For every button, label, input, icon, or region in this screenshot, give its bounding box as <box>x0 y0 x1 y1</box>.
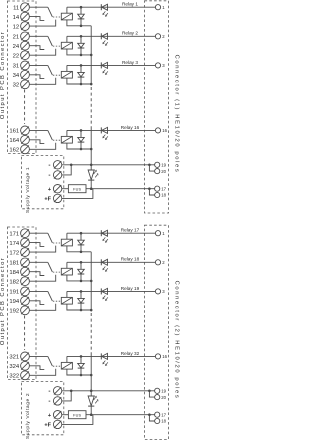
svg-text:171: 171 <box>9 231 19 237</box>
junction + bus <box>90 413 93 416</box>
svg-text:164: 164 <box>9 138 20 144</box>
LED Relay 1 <box>100 4 102 10</box>
relay coil (Relay 2) <box>61 42 72 49</box>
svg-text:Relay 1: Relay 1 <box>122 2 138 7</box>
wire 31 to contact <box>29 64 47 66</box>
wire coil top to rail <box>66 65 68 71</box>
svg-text:22: 22 <box>13 53 20 59</box>
wire 181 to contact <box>29 261 47 263</box>
contact arm Relay 3 <box>48 65 53 75</box>
rail Relay 32 <box>67 355 155 357</box>
svg-text:34: 34 <box>13 73 20 79</box>
terminal 22 (NC) <box>21 51 30 60</box>
mechanical link Relay 16 <box>53 139 61 141</box>
LED Relay 32 <box>100 353 102 359</box>
wire pins 17/18 tie <box>149 189 154 195</box>
wire coil top to rail <box>66 291 68 297</box>
svg-text:184: 184 <box>9 270 20 276</box>
junction rail/diode <box>80 6 83 9</box>
svg-text:Relay 17: Relay 17 <box>121 228 140 233</box>
wire 161 to contact <box>29 129 47 131</box>
LED Relay 16 <box>100 127 102 133</box>
supply voltage box (bank 2) <box>22 382 64 435</box>
supply voltage box (bank 1) <box>22 156 64 209</box>
rail Relay 17 <box>67 232 155 234</box>
junction - bus/LED <box>90 164 93 167</box>
LED Relay 19 <box>100 288 102 294</box>
terminal 161 (COM) <box>21 126 30 135</box>
wire 321 to contact <box>29 355 47 357</box>
pin 17 <box>155 186 160 191</box>
svg-text:11: 11 <box>13 5 19 11</box>
pin 2 connector 1 <box>155 34 160 39</box>
pin 18 <box>155 192 160 197</box>
junction diode/return <box>80 83 83 86</box>
junction pin 19 wire <box>148 390 151 393</box>
connector (2) box <box>145 225 169 439</box>
LED Relay 17 <box>100 230 102 236</box>
wire 184 to contact <box>29 272 44 276</box>
rail Relay 19 <box>67 290 155 292</box>
continuation dashes terminals <box>24 90 26 125</box>
rail Relay 2 <box>67 35 155 37</box>
mechanical link Relay 3 <box>53 74 61 76</box>
wire pins 19/20 tie <box>149 391 154 397</box>
svg-text:18: 18 <box>161 193 166 198</box>
relay coil (Relay 3) <box>61 71 72 78</box>
svg-text:Relay 18: Relay 18 <box>121 257 140 262</box>
rail Relay 16 <box>67 129 155 131</box>
terminal - (2) <box>53 397 61 405</box>
terminal 164 (NO) <box>21 135 30 144</box>
LED Relay 3 <box>100 62 102 68</box>
pin 16 connector 2 <box>155 354 160 359</box>
pin 19 <box>155 162 160 167</box>
mechanical link Relay 19 <box>53 300 61 302</box>
svg-text:20: 20 <box>161 169 166 174</box>
terminal 321 (COM) <box>21 352 30 361</box>
junction diode/return <box>80 374 83 377</box>
junction diode/return <box>80 25 83 28</box>
junction diode/return <box>80 280 83 283</box>
pin 16 connector 1 <box>155 128 160 133</box>
power LED <box>90 165 92 170</box>
wire - rail <box>62 390 155 392</box>
terminal 191 (COM) <box>21 287 30 296</box>
terminal - (2) <box>53 171 61 179</box>
output PCB connector box (bank 1) <box>8 1 37 154</box>
junction rail/diode <box>80 64 83 67</box>
wire coil top to rail <box>66 130 68 136</box>
svg-text:-: - <box>48 162 50 169</box>
svg-text:-: - <box>48 172 50 179</box>
wire 32 to contact <box>29 78 55 85</box>
relay coil (Relay 16) <box>61 136 72 143</box>
connector (1) box <box>145 1 169 213</box>
junction - tie <box>70 390 73 393</box>
svg-text:321: 321 <box>9 355 19 361</box>
pin 20 <box>155 395 160 400</box>
wire fuse to connector <box>86 188 155 190</box>
terminal 32 (NC) <box>21 80 30 89</box>
terminal 324 (NO) <box>21 361 30 370</box>
junction diode/return <box>80 309 83 312</box>
wire +F tie <box>62 415 93 425</box>
junction rail/diode <box>80 355 83 358</box>
svg-text:17: 17 <box>161 412 166 417</box>
svg-text:192: 192 <box>9 309 19 315</box>
terminal +F <box>53 194 61 202</box>
terminal +F <box>53 420 61 428</box>
wire 191 to contact <box>29 290 47 292</box>
svg-text:Relay 16: Relay 16 <box>121 125 140 130</box>
wire coil top to rail <box>66 7 68 13</box>
junction return/bus <box>90 309 93 312</box>
wire coil return <box>67 143 91 149</box>
terminal 12 (NC) <box>21 22 30 31</box>
svg-text:161: 161 <box>9 129 19 135</box>
svg-text:+F: +F <box>44 423 51 429</box>
svg-text:FUS: FUS <box>73 188 81 192</box>
wire 22 to contact <box>29 49 55 56</box>
svg-text:Relay 2: Relay 2 <box>122 31 138 36</box>
terminal 31 (COM) <box>21 61 30 70</box>
svg-text:16: 16 <box>162 128 167 133</box>
negative bus (solid upper) <box>90 252 92 312</box>
wire 174 to contact <box>29 243 44 247</box>
flyback diode Relay 1 <box>80 7 82 14</box>
contact arm Relay 18 <box>48 262 53 272</box>
junction rail/diode <box>80 35 83 38</box>
svg-text:17: 17 <box>161 186 166 191</box>
terminal 11 (COM) <box>21 3 30 12</box>
svg-text:Relay 3: Relay 3 <box>122 60 138 65</box>
wire 12 to contact <box>29 20 55 27</box>
mechanical link Relay 32 <box>53 365 61 367</box>
wire 21 to contact <box>29 35 47 37</box>
fuse FUS <box>68 185 86 193</box>
svg-text:24: 24 <box>13 44 20 50</box>
wire +F tie <box>62 189 93 199</box>
junction rail/diode <box>80 261 83 264</box>
terminal 172 (NC) <box>21 248 30 257</box>
terminal 162 (NC) <box>21 145 30 154</box>
contact arm Relay 19 <box>48 291 53 301</box>
rail Relay 1 <box>67 6 155 8</box>
junction return/bus <box>90 374 93 377</box>
relay coil (Relay 18) <box>61 268 72 275</box>
relay coil (Relay 32) <box>61 362 72 369</box>
junction return/bus <box>90 280 93 283</box>
relay coil (Relay 17) <box>61 239 72 246</box>
wire coil return <box>67 246 91 252</box>
fuse FUS <box>68 411 86 419</box>
svg-text:-: - <box>48 398 50 405</box>
contact arm Relay 16 <box>48 130 53 140</box>
junction + bus <box>90 187 93 190</box>
svg-text:Relay 19: Relay 19 <box>121 286 140 291</box>
svg-text:FUS: FUS <box>73 414 81 418</box>
terminal 181 (COM) <box>21 258 30 267</box>
wire 34 to contact <box>29 75 44 79</box>
negative bus (dashed continuation) <box>90 87 92 127</box>
mechanical link Relay 18 <box>53 271 61 273</box>
terminal 171 (COM) <box>21 229 30 238</box>
wire coil top to rail <box>66 36 68 42</box>
svg-text:Output PCB Connector: Output PCB Connector <box>0 257 6 345</box>
contact arm Relay 17 <box>48 233 53 243</box>
wire coil return <box>67 304 91 310</box>
svg-text:182: 182 <box>9 279 19 285</box>
pin 3 connector 1 <box>155 63 160 68</box>
junction rail/diode <box>80 129 83 132</box>
terminal 174 (NO) <box>21 238 30 247</box>
flyback diode Relay 32 <box>80 356 82 363</box>
flyback diode Relay 2 <box>80 36 82 43</box>
relay coil (Relay 19) <box>61 297 72 304</box>
wire + to fuse <box>62 414 68 416</box>
terminal 192 (NC) <box>21 306 30 315</box>
junction diode/return <box>80 251 83 254</box>
terminal 14 (NO) <box>21 12 30 21</box>
svg-text:20: 20 <box>161 395 166 400</box>
terminal - (1) <box>53 387 61 395</box>
wire + to fuse <box>62 188 68 190</box>
negative bus (solid lower) <box>90 353 92 391</box>
flyback diode Relay 3 <box>80 65 82 72</box>
junction pin 17 wire <box>148 187 151 190</box>
svg-text:162: 162 <box>9 148 19 154</box>
terminal 184 (NO) <box>21 267 30 276</box>
junction diode/return <box>80 54 83 57</box>
svg-text:12: 12 <box>13 24 20 30</box>
junction rail/diode <box>80 232 83 235</box>
wire pins 19/20 tie <box>149 165 154 171</box>
junction - tie <box>70 164 73 167</box>
terminal + <box>53 185 61 193</box>
terminal 194 (NO) <box>21 296 30 305</box>
terminal - (1) <box>53 161 61 169</box>
negative bus (solid lower) <box>90 127 92 165</box>
wire - rail <box>62 164 155 166</box>
junction pin 19 wire <box>148 164 151 167</box>
svg-text:172: 172 <box>9 250 19 256</box>
junction rail/diode <box>80 290 83 293</box>
junction return/bus <box>90 148 93 151</box>
wire coil top to rail <box>66 356 68 362</box>
relay coil (Relay 1) <box>61 13 72 20</box>
wire coil return <box>67 275 91 281</box>
svg-text:322: 322 <box>9 374 19 380</box>
wire 172 to contact <box>29 246 55 253</box>
wire 182 to contact <box>29 275 55 282</box>
wire coil return <box>67 78 91 84</box>
svg-text:191: 191 <box>9 290 19 296</box>
pin 1 connector 2 <box>155 231 160 236</box>
contact arm Relay 32 <box>48 356 53 366</box>
svg-text:174: 174 <box>9 241 20 247</box>
output PCB connector box (bank 2) <box>8 227 37 380</box>
svg-text:14: 14 <box>13 15 20 21</box>
svg-text:19: 19 <box>161 389 166 394</box>
pin 3 connector 2 <box>155 289 160 294</box>
negative bus (dashed continuation) <box>90 313 92 353</box>
svg-text:-: - <box>48 388 50 395</box>
svg-text:31: 31 <box>13 64 20 70</box>
rail Relay 18 <box>67 261 155 263</box>
svg-text:Supply Voltage 1: Supply Voltage 1 <box>25 167 31 213</box>
pin 19 <box>155 388 160 393</box>
wire - (2) tie <box>62 391 71 401</box>
svg-text:Supply Voltage 2: Supply Voltage 2 <box>25 393 31 439</box>
wire coil return <box>67 369 91 375</box>
svg-text:+F: +F <box>44 197 51 203</box>
wire 322 to contact <box>29 369 55 376</box>
wire 164 to contact <box>29 140 44 144</box>
wire coil top to rail <box>66 233 68 239</box>
terminal 182 (NC) <box>21 277 30 286</box>
wire 171 to contact <box>29 232 47 234</box>
LED Relay 18 <box>100 259 102 265</box>
mechanical link Relay 1 <box>53 16 61 18</box>
svg-text:32: 32 <box>13 83 20 89</box>
wire 24 to contact <box>29 46 44 50</box>
wire fuse to connector <box>86 414 155 416</box>
pin 20 <box>155 169 160 174</box>
continuation dashes terminals <box>24 316 26 351</box>
terminal + <box>53 411 61 419</box>
rail Relay 3 <box>67 64 155 66</box>
wire 14 to contact <box>29 17 44 21</box>
junction return/bus <box>90 54 93 57</box>
wire 324 to contact <box>29 366 44 370</box>
wire coil return <box>67 49 91 55</box>
svg-text:16: 16 <box>162 354 167 359</box>
wire coil top to rail <box>66 262 68 268</box>
terminal 24 (NO) <box>21 41 30 50</box>
junction - bus/LED <box>90 390 93 393</box>
mechanical link Relay 2 <box>53 45 61 47</box>
negative bus (solid upper) <box>90 26 92 86</box>
wire 11 to contact <box>29 6 47 8</box>
svg-text:Connector (1) HE10/20 poles: Connector (1) HE10/20 poles <box>174 55 180 174</box>
pin 17 <box>155 412 160 417</box>
wire - (2) tie <box>62 165 71 175</box>
LED Relay 2 <box>100 33 102 39</box>
contact arm Relay 2 <box>48 36 53 46</box>
wire pins 17/18 tie <box>149 415 154 421</box>
pin 1 connector 1 <box>155 5 160 10</box>
svg-text:181: 181 <box>9 261 19 267</box>
flyback diode Relay 18 <box>80 262 82 269</box>
svg-text:Connector (2) HE10/20 poles: Connector (2) HE10/20 poles <box>174 281 180 400</box>
terminal 21 (COM) <box>21 32 30 41</box>
svg-text:21: 21 <box>13 35 20 41</box>
svg-text:18: 18 <box>161 419 166 424</box>
pin 2 connector 2 <box>155 260 160 265</box>
junction pin 17 wire <box>148 413 151 416</box>
svg-text:324: 324 <box>9 364 20 370</box>
flyback diode Relay 17 <box>80 233 82 240</box>
svg-text:Output PCB Connector: Output PCB Connector <box>0 31 6 119</box>
wire 162 to contact <box>29 143 55 150</box>
terminal 322 (NC) <box>21 371 30 380</box>
pin 18 <box>155 418 160 423</box>
junction return/bus <box>90 83 93 86</box>
svg-text:194: 194 <box>9 299 20 305</box>
flyback diode Relay 16 <box>80 130 82 137</box>
svg-text:19: 19 <box>161 163 166 168</box>
contact arm Relay 1 <box>48 7 53 17</box>
terminal 34 (NO) <box>21 70 30 79</box>
power LED <box>90 391 92 396</box>
flyback diode Relay 19 <box>80 291 82 298</box>
svg-text:Relay 32: Relay 32 <box>121 351 140 356</box>
wire 192 to contact <box>29 304 55 311</box>
wire coil return <box>67 20 91 26</box>
junction diode/return <box>80 148 83 151</box>
wire 194 to contact <box>29 301 44 305</box>
mechanical link Relay 17 <box>53 242 61 244</box>
